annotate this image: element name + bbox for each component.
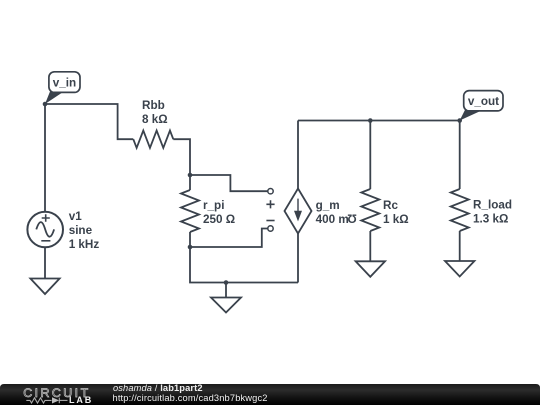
svg-text:g_m: g_m: [316, 199, 340, 212]
svg-text:oshamda / lab1part2: oshamda / lab1part2: [113, 383, 203, 393]
svg-text:v_out: v_out: [468, 95, 499, 108]
svg-text:8 kΩ: 8 kΩ: [142, 113, 168, 126]
svg-text:Ω: Ω: [347, 212, 356, 225]
svg-text:1 kHz: 1 kHz: [69, 238, 100, 251]
svg-text:R_load: R_load: [473, 199, 512, 212]
svg-text:1 kΩ: 1 kΩ: [383, 213, 409, 226]
svg-text:400 m: 400 m: [316, 213, 349, 226]
svg-text:r_pi: r_pi: [203, 199, 224, 212]
svg-text:sine: sine: [69, 224, 93, 237]
svg-text:http://circuitlab.com/cad3nb7b: http://circuitlab.com/cad3nb7bkwgc2: [113, 393, 268, 403]
svg-text:v_in: v_in: [53, 77, 76, 90]
svg-text:v1: v1: [69, 210, 83, 223]
svg-text:Rc: Rc: [383, 199, 398, 212]
svg-text:Rbb: Rbb: [142, 99, 165, 112]
svg-text:1.3 kΩ: 1.3 kΩ: [473, 212, 508, 225]
svg-text:LAB: LAB: [69, 395, 93, 405]
svg-text:250 Ω: 250 Ω: [203, 213, 235, 226]
